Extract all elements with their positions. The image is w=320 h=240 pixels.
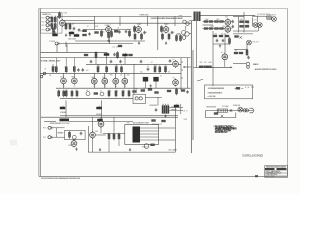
svg-text:MADE IN U.S.A.: MADE IN U.S.A.: [215, 131, 228, 134]
svg-text:5Y3: 5Y3: [254, 20, 257, 22]
svg-text:470K: 470K: [108, 90, 112, 92]
svg-text:220K: 220K: [211, 26, 215, 28]
svg-text:IN 2: IN 2: [42, 21, 46, 23]
svg-text:250K: 250K: [115, 66, 119, 68]
svg-text:1500: 1500: [216, 19, 220, 21]
svg-text:V3: V3: [115, 86, 117, 88]
svg-text:100K: 100K: [115, 90, 119, 92]
svg-text:47K 2W: 47K 2W: [245, 87, 254, 89]
svg-text:VOL: VOL: [60, 77, 63, 79]
svg-text:FS 1: FS 1: [43, 128, 48, 130]
svg-text:68K: 68K: [127, 75, 130, 77]
svg-text:10: 10: [128, 29, 130, 31]
svg-text:.02: .02: [147, 66, 149, 68]
svg-text:100K: 100K: [64, 13, 68, 15]
svg-text:▷ READINGS TAKEN AT 117: ▷ READINGS TAKEN AT 117: [207, 92, 222, 95]
svg-text:V2: V2: [74, 86, 76, 88]
svg-text:FENDER MUSICAL INSTRUMENTS SA: FENDER MUSICAL INSTRUMENTS SANTA ANA, CA…: [41, 177, 81, 180]
svg-text:10: 10: [160, 76, 162, 78]
svg-text:TRE: TRE: [71, 77, 74, 79]
svg-text:ALL VOLTAGES TO GND: ALL VOLTAGES TO GND: [133, 121, 150, 124]
svg-text:V2: V2: [173, 59, 175, 61]
svg-text:250K: 250K: [97, 66, 101, 68]
svg-text:1500: 1500: [144, 32, 148, 34]
svg-text:25: 25: [111, 32, 113, 34]
svg-text:PILOT: PILOT: [253, 42, 260, 44]
svg-text:100K: 100K: [57, 90, 61, 92]
svg-text:IN 2: IN 2: [42, 29, 46, 31]
svg-text:C 6V6GT: C 6V6GT: [267, 15, 277, 17]
svg-text:TONE 250K: TONE 250K: [139, 14, 149, 16]
svg-text:27K: 27K: [204, 62, 207, 64]
svg-text:VIBRATO CH: VIBRATO CH: [42, 13, 52, 16]
svg-text:SHEET 1 OF 1: SHEET 1 OF 1: [265, 176, 275, 178]
svg-text:470: 470: [215, 33, 218, 35]
svg-text:68K: 68K: [55, 66, 58, 68]
svg-text:SPEAKER: SPEAKER: [253, 63, 260, 66]
svg-text:12AX7: 12AX7: [105, 24, 111, 27]
svg-text:470: 470: [221, 33, 224, 35]
svg-text:100K: 100K: [208, 62, 212, 64]
svg-text:TRANS: TRANS: [171, 108, 177, 111]
svg-text:.02: .02: [151, 62, 153, 64]
svg-text:10: 10: [75, 90, 77, 92]
svg-text:500: 500: [140, 72, 143, 74]
svg-text:.02 25: .02 25: [112, 47, 118, 49]
svg-text:220K: 220K: [205, 19, 209, 21]
svg-text:V2: V2: [104, 86, 106, 88]
svg-text:IN 1: IN 1: [42, 18, 46, 20]
svg-text:56K: 56K: [200, 62, 203, 64]
svg-text:10K: 10K: [240, 19, 243, 21]
svg-text:SPEED INTENSITY FOOT SW: SPEED INTENSITY FOOT SW: [50, 123, 70, 125]
svg-text:VOLUME: VOLUME: [60, 112, 67, 114]
svg-text:220K: 220K: [122, 90, 126, 92]
svg-text:AC: AC: [184, 110, 189, 113]
svg-text:1500: 1500: [171, 32, 175, 34]
svg-text:V4: V4: [124, 86, 126, 88]
svg-text:56K: 56K: [128, 90, 131, 92]
svg-text:100K: 100K: [64, 90, 68, 92]
svg-text:68K: 68K: [50, 24, 53, 26]
svg-text:220K 100K: 220K 100K: [68, 39, 77, 41]
svg-text:.02: .02: [105, 66, 107, 68]
svg-text:OSC 12AX7: OSC 12AX7: [168, 149, 177, 152]
svg-text:SPEED: SPEED: [96, 114, 103, 116]
svg-text:◌ VOLTAGES READ WITH METER: ◌ VOLTAGES READ WITH METER: [207, 87, 225, 90]
svg-text:TREM: TREM: [49, 41, 55, 43]
svg-text:ALL RESISTORS 1/2 WATT 10% UNL: ALL RESISTORS 1/2 WATT 10% UNLESS: [255, 68, 278, 71]
svg-text:1500: 1500: [222, 26, 226, 28]
svg-text:V1: V1: [94, 86, 96, 88]
svg-text:SP 2: SP 2: [43, 137, 48, 139]
svg-text:1500: 1500: [68, 24, 72, 26]
svg-text:25: 25: [100, 90, 102, 92]
svg-text:VOL: VOL: [102, 77, 105, 79]
svg-text:22K: 22K: [247, 24, 250, 26]
svg-text:.047: .047: [86, 70, 89, 72]
svg-text:270: 270: [135, 89, 138, 91]
svg-text:CONTROL & VOLTAGES: CONTROL & VOLTAGES: [242, 154, 263, 157]
svg-text:50: 50: [86, 90, 88, 92]
svg-text:V4: V4: [221, 52, 223, 54]
svg-text:.02: .02: [87, 26, 89, 28]
svg-text:117 VAC: 117 VAC: [222, 105, 230, 108]
svg-text:V1: V1: [63, 86, 65, 88]
svg-text:.02: .02: [117, 27, 119, 29]
svg-text:INTENSITY: INTENSITY: [149, 105, 159, 107]
svg-text:10: 10: [144, 88, 146, 90]
svg-text:V3: V3: [173, 78, 175, 80]
svg-text:NORMAL CHANNEL 12AX7: NORMAL CHANNEL 12AX7: [41, 59, 62, 62]
svg-text:GROUND SW: GROUND SW: [206, 106, 216, 108]
svg-text:1500: 1500: [101, 32, 105, 34]
svg-text:25: 25: [72, 24, 74, 26]
svg-text:▭ VAC LINE: ▭ VAC LINE: [207, 95, 216, 98]
svg-text:VIBRATO: VIBRATO: [58, 131, 65, 134]
svg-text:470K: 470K: [164, 66, 168, 68]
svg-text:IN 1: IN 1: [42, 25, 46, 27]
svg-text:FUSE 2A: FUSE 2A: [233, 104, 241, 107]
svg-text:6V6: 6V6: [225, 17, 228, 19]
svg-text:.02: .02: [120, 75, 122, 77]
svg-text:47K: 47K: [178, 34, 181, 36]
svg-text:25: 25: [229, 37, 231, 39]
svg-text:IN: IN: [45, 69, 47, 71]
svg-text:220K: 220K: [154, 66, 158, 68]
svg-text:SW: SW: [184, 119, 188, 121]
svg-text:220K: 220K: [95, 26, 99, 28]
svg-text:68K: 68K: [110, 75, 113, 77]
